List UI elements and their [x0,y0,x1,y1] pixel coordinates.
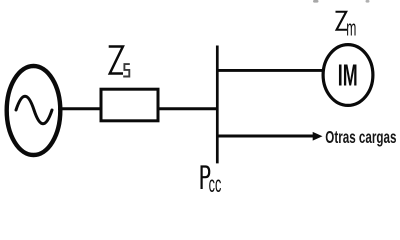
svg-text:cc: cc [209,171,222,197]
svg-text:Otras cargas: Otras cargas [325,127,396,147]
svg-text:IM: IM [338,60,358,93]
svg-text:m: m [346,16,356,41]
